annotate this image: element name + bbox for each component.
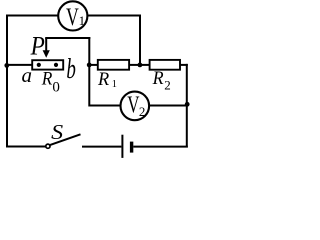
wire switch to battery — [82, 146, 121, 148]
svg-text:R: R — [41, 69, 53, 89]
voltmeter V2 — [121, 92, 150, 121]
junction dot on left rail — [4, 63, 9, 68]
junction dot on right rail — [185, 102, 190, 107]
svg-text:1: 1 — [79, 13, 86, 28]
wire slider horizontal — [45, 37, 90, 39]
voltmeter V1 — [58, 1, 87, 31]
junction dot slider-R1 node — [87, 63, 92, 68]
wire left rail — [6, 15, 8, 148]
svg-text:1: 1 — [112, 79, 117, 90]
svg-text:2: 2 — [164, 78, 171, 93]
switch S — [46, 134, 81, 148]
wire junction to R2 — [140, 64, 150, 66]
wire top-right segment — [87, 15, 141, 17]
svg-text:2: 2 — [139, 104, 146, 119]
resistor R1 — [98, 60, 129, 70]
rheostat R0 body — [32, 60, 63, 69]
wire to R1 — [89, 64, 98, 66]
resistor R2 — [150, 60, 180, 70]
wire V2 left — [89, 105, 121, 107]
label R0 — [41, 69, 60, 95]
svg-text:a: a — [22, 65, 33, 87]
label R2 — [152, 69, 171, 93]
wire V1 vertical to R1-R2 junction — [139, 15, 141, 65]
wire top-left segment — [6, 15, 59, 17]
svg-text:S: S — [51, 120, 63, 144]
battery — [122, 135, 131, 158]
slider P arrow — [43, 38, 50, 58]
svg-text:R: R — [152, 69, 164, 89]
svg-text:V: V — [66, 4, 79, 31]
label R1 — [97, 70, 117, 90]
wire battery to right rail — [133, 146, 188, 148]
wire R2 to right rail — [180, 64, 188, 66]
svg-text:P: P — [30, 31, 45, 60]
svg-text:0: 0 — [52, 79, 60, 95]
wire R1 to junction — [129, 64, 140, 66]
svg-text:R: R — [97, 70, 109, 90]
junction dot R1-R2 node — [138, 63, 143, 68]
wire to rheostat terminal a — [6, 64, 33, 66]
svg-text:b: b — [66, 54, 76, 85]
wire bottom-left — [6, 146, 46, 148]
wire slider-node vertical — [88, 37, 90, 107]
wire V2 right — [149, 105, 187, 107]
wire right rail — [186, 64, 188, 148]
